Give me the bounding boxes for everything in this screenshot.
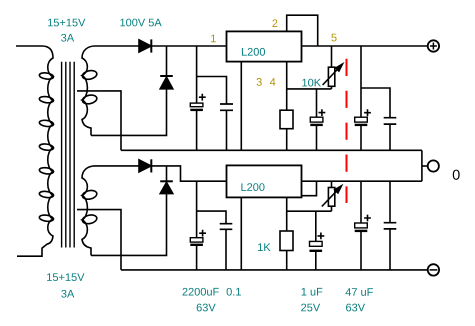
wire: lower secondary bottom to D4 anode xyxy=(91,194,167,256)
capacitor C1 2200uF 63V (electrolytic) xyxy=(190,94,205,151)
node: 0 bus bottom line left segment (D3 to U2 pin1) xyxy=(151,166,226,181)
pin number 3 xyxy=(257,78,262,86)
0 output terminal xyxy=(428,160,439,171)
transformer T1 core xyxy=(62,62,75,248)
wire: U1 pin 4 down xyxy=(286,62,288,111)
node: 0 bus right edge xyxy=(421,150,423,181)
capacitor C1 2200uF 63V branch wire xyxy=(196,46,198,103)
transformer T1 secondary winding upper (15+15V) xyxy=(82,46,98,135)
wire: C1-C2 top connector xyxy=(197,77,227,104)
wire: D1 cathode to L200 pin 1 xyxy=(151,45,226,47)
wire: upper secondary top to D1 xyxy=(95,45,139,47)
wire: upper secondary bottom to D2 anode xyxy=(91,89,167,136)
potentiometer P1 10K xyxy=(323,46,343,89)
label: 15+15V (lower) xyxy=(47,273,84,281)
label: 25V xyxy=(301,304,320,312)
diode D2 xyxy=(160,46,173,89)
separation dashed line xyxy=(346,59,348,203)
wire: lower pin4 connector to pot bottom xyxy=(287,210,332,212)
label: 47 uF xyxy=(345,288,372,296)
capacitor C5 0.1 (upper right) xyxy=(384,118,397,151)
label: 63V (left) xyxy=(197,304,216,312)
wire: lower secondary center tap to minus bus corner xyxy=(77,210,121,270)
wire: U1 pin 5 output to plus terminal xyxy=(302,45,428,47)
node: 0 bus bottom line right segment xyxy=(302,180,422,182)
transformer T1 primary winding xyxy=(16,46,54,256)
capacitor C6 2200uF 63V lower (electrolytic) xyxy=(190,230,206,270)
IC U2 L200 regulator box (lower) xyxy=(227,165,302,197)
label: 15+15V (upper) xyxy=(48,19,85,27)
pin number 5 xyxy=(331,34,336,42)
pin number 2 xyxy=(272,19,277,27)
label: L200 (upper) xyxy=(242,48,265,56)
diode D1 (100V 5A) xyxy=(139,39,151,52)
wire: U1 pin 3 to 0 bus xyxy=(240,62,242,151)
label: 100V 5A xyxy=(120,19,161,27)
wire: U2 pin 4 down xyxy=(286,197,288,231)
label: 1K xyxy=(258,243,270,251)
wire: pin 2 loop of U1 xyxy=(287,15,318,46)
wire: pin4 connector to pot bottom xyxy=(287,88,332,90)
resistor R2 1K xyxy=(280,231,293,270)
label: L200 (lower) xyxy=(241,183,264,191)
wire: lower secondary top to D3 xyxy=(95,165,139,167)
wire: lower C6-C7 connector xyxy=(197,211,226,223)
label: 10K xyxy=(302,79,321,87)
capacitor C7 0.1 lower xyxy=(220,224,233,270)
node: minus bus xyxy=(121,269,428,271)
potentiometer P2 (lower) xyxy=(322,181,342,211)
plus output terminal xyxy=(428,40,439,51)
wire: 47uF branch from output xyxy=(360,46,362,117)
IC U1 L200 regulator box xyxy=(227,31,302,61)
transformer T1 secondary winding lower (15+15V) xyxy=(82,166,98,256)
wire: U2 pin 5 jog to 0 bus xyxy=(302,181,317,196)
label: 63V (right) xyxy=(346,304,365,312)
capacitor C8 1uF 25V lower (electrolytic) xyxy=(310,211,325,270)
wire: 47uF to 0.1 top connector xyxy=(361,88,390,117)
capacitor C9 47uF 63V lower (electrolytic) xyxy=(355,181,371,270)
minus output terminal xyxy=(428,264,439,275)
label: 0 output xyxy=(453,170,460,180)
label: 2200uF xyxy=(183,288,219,296)
wire: stub to 0 terminal xyxy=(422,165,428,167)
label: 0.1 xyxy=(227,288,241,296)
pin number 4 xyxy=(270,78,276,86)
label: 3A (lower) xyxy=(61,290,74,298)
diode D4 xyxy=(160,166,173,194)
wire: U2 pin 3 to minus bus xyxy=(240,197,242,270)
wire: lower 2200uF branch from pin1 wire xyxy=(196,181,198,238)
capacitor C2 0.1 xyxy=(220,104,233,150)
resistor R1 (upper) xyxy=(280,110,293,150)
pin number 1 xyxy=(211,35,216,43)
label: 1 uF xyxy=(302,288,323,296)
capacitor C10 0.1 lower right xyxy=(384,181,397,270)
node: 0 bus top line xyxy=(121,149,422,151)
diode D3 (100V 5A) xyxy=(139,159,151,172)
capacitor C3 1uF 25V (electrolytic) xyxy=(310,89,325,150)
capacitor C4 47uF 63V (electrolytic) xyxy=(355,109,371,150)
label: 3A (upper) xyxy=(61,34,74,42)
wire: upper secondary center tap to 0 bus corner xyxy=(77,91,121,150)
